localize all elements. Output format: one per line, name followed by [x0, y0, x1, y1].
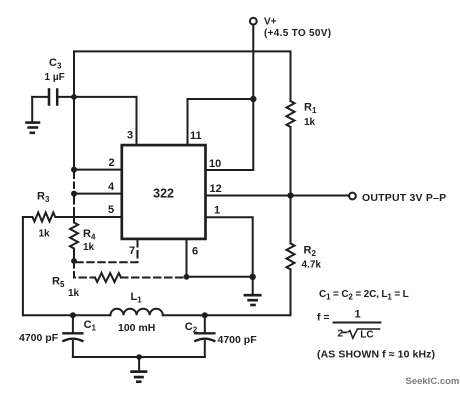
svg-text:10: 10	[209, 158, 221, 170]
svg-text:V+: V+	[264, 17, 277, 28]
svg-text:2: 2	[109, 157, 115, 169]
svg-text:2: 2	[337, 327, 343, 339]
svg-text:4700 pF: 4700 pF	[218, 334, 258, 346]
svg-text:1k: 1k	[68, 288, 80, 299]
svg-text:4700 pF: 4700 pF	[19, 332, 59, 344]
svg-text:11: 11	[190, 130, 202, 142]
svg-text:1k: 1k	[83, 242, 95, 253]
svg-text:1 µF: 1 µF	[45, 72, 65, 83]
svg-text:5: 5	[108, 204, 114, 216]
svg-text:322: 322	[153, 186, 174, 200]
svg-text:OUTPUT 3V P–P: OUTPUT 3V P–P	[362, 192, 446, 204]
svg-text:6: 6	[192, 246, 198, 258]
svg-text:3: 3	[127, 130, 133, 142]
svg-text:1: 1	[214, 205, 220, 217]
svg-text:(+4.5 TO 50V): (+4.5 TO 50V)	[264, 28, 331, 39]
svg-text:12: 12	[210, 183, 222, 195]
svg-text:f =: f =	[317, 312, 330, 324]
svg-text:7: 7	[129, 245, 135, 257]
svg-text:C1 = C2 = 2C, L1 = L: C1 = C2 = 2C, L1 = L	[319, 289, 409, 302]
svg-text:4: 4	[108, 181, 115, 193]
svg-text:(AS SHOWN f ≈ 10 kHz): (AS SHOWN f ≈ 10 kHz)	[317, 349, 435, 361]
svg-text:1k: 1k	[39, 229, 51, 240]
svg-text:1: 1	[354, 309, 360, 321]
svg-text:SeekIC.com: SeekIC.com	[406, 376, 460, 387]
svg-text:4.7k: 4.7k	[302, 260, 322, 271]
svg-text:1k: 1k	[304, 117, 316, 128]
svg-text:LC: LC	[360, 329, 373, 340]
svg-text:100 mH: 100 mH	[118, 322, 155, 334]
